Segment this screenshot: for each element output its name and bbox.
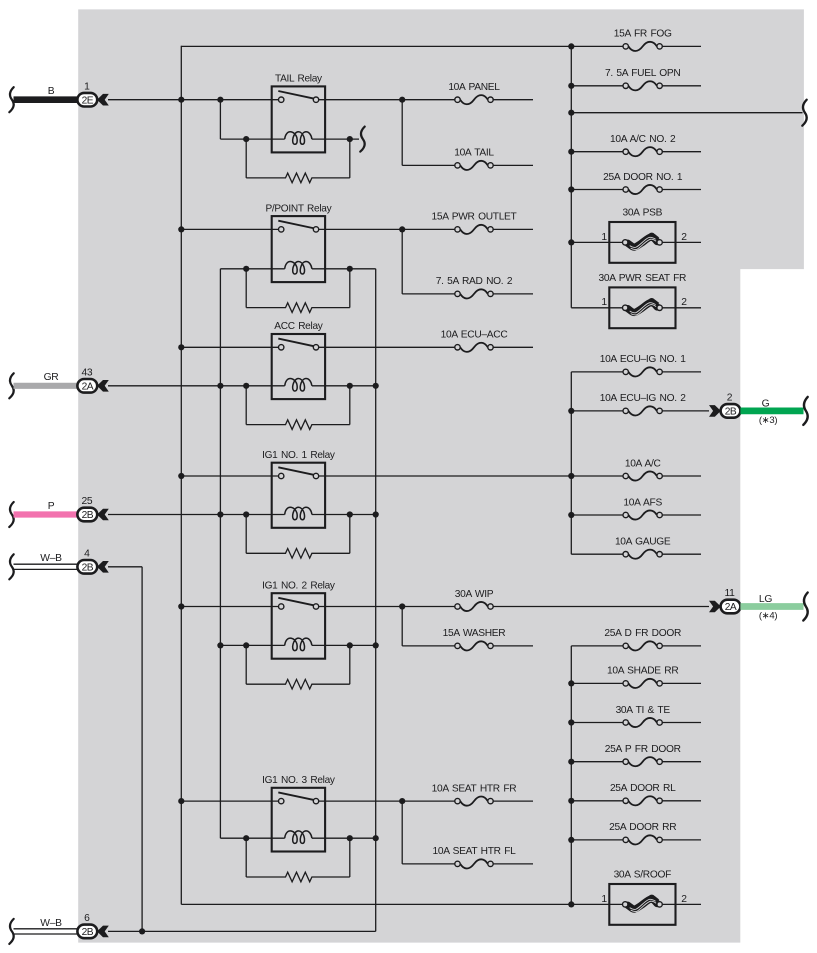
wire: IG1 NO. 3 relay switch line to 10A SEAT HTR FR: [181, 800, 533, 802]
relay IG1 NO. 3 Relay: box: [272, 788, 325, 852]
relay TAIL Relay: parallel resistor: [246, 139, 350, 183]
svg-text:7. 5A FUEL OPN: 7. 5A FUEL OPN: [605, 68, 680, 79]
wire: 30A TI & TE line: [571, 722, 701, 724]
wire: 10A GAUGE line: [571, 553, 701, 555]
wire: 25A DOOR RR line: [571, 839, 701, 841]
svg-text:1: 1: [601, 232, 607, 243]
relay IG1 NO. 1 Relay: resistor junction dots: [243, 511, 353, 517]
relay IG1 NO. 3 Relay: resistor junction dots: [243, 835, 353, 841]
svg-text:1: 1: [84, 81, 90, 92]
svg-text:P: P: [48, 501, 55, 512]
wire: IG1 output fuse bus: [570, 372, 572, 554]
wire: 10A ECU-IG NO. 2 line to G out: [571, 410, 709, 412]
svg-text:25A DOOR RR: 25A DOOR RR: [609, 822, 676, 833]
svg-text:10A A/C NO. 2: 10A A/C NO. 2: [610, 134, 676, 145]
relay IG1 NO. 2 Relay: parallel resistor: [246, 645, 350, 689]
fuse 30A WIP: [455, 589, 494, 611]
junction dots: coil feed taps: [217, 97, 223, 649]
svg-text:10A SEAT HTR FR: 10A SEAT HTR FR: [432, 783, 517, 794]
wire: 25A DOOR RL line: [571, 800, 701, 802]
wire: relay coil feed vertical (lower section): [219, 269, 221, 838]
svg-text:1: 1: [601, 297, 607, 308]
relay TAIL Relay: box: [272, 86, 325, 152]
svg-text:IG1 NO. 2 Relay: IG1 NO. 2 Relay: [262, 580, 336, 591]
svg-text:30A PWR SEAT FR: 30A PWR SEAT FR: [599, 273, 687, 284]
fuse 15A FR FOG: [614, 29, 672, 51]
fuse 30A TI & TE: [616, 705, 671, 727]
svg-text:10A PANEL: 10A PANEL: [448, 82, 500, 93]
svg-text:2: 2: [727, 393, 733, 404]
junction dots: door fuse bus: [568, 680, 574, 907]
wire: coil ground vertical to W-B: [375, 269, 377, 932]
arrow into connector 2A (LG): [709, 601, 721, 613]
svg-text:15A FR FOG: 15A FR FOG: [614, 29, 672, 40]
fusible link 30A PSB: [601, 207, 687, 262]
svg-text:W–B: W–B: [40, 918, 62, 929]
relay ACC Relay: parallel resistor: [246, 386, 350, 430]
svg-text:30A WIP: 30A WIP: [455, 589, 494, 600]
wire: IG1 NO. 2 relay switch line to 30A WIP and LG out: [181, 606, 709, 608]
connector oval 2A: [721, 600, 741, 614]
wire: branch 10A SEAT HTR FR to FL: [402, 801, 533, 864]
GR wire: [14, 372, 78, 386]
svg-text:2B: 2B: [725, 407, 737, 418]
fuse 25A D FR DOOR: [604, 628, 681, 650]
svg-text:(∗4): (∗4): [759, 611, 778, 622]
relay P/POINT Relay: box: [272, 216, 325, 282]
wire: IG1 NO. 1 relay switch line to 10A A/C: [181, 475, 701, 477]
fuse 15A WASHER: [443, 628, 506, 650]
svg-text:10A SEAT HTR FL: 10A SEAT HTR FL: [432, 846, 516, 857]
wire: unfused battery feed line: [571, 112, 802, 114]
svg-text:10A ECU–ACC: 10A ECU–ACC: [441, 330, 508, 341]
G wire: [740, 398, 803, 426]
relay P/POINT Relay: label: [265, 203, 332, 214]
connector pin number 1: [84, 81, 90, 92]
svg-text:15A WASHER: 15A WASHER: [443, 628, 506, 639]
connector oval 2B: [721, 404, 741, 418]
svg-text:10A TAIL: 10A TAIL: [454, 148, 494, 159]
wire: 7.5A FUEL OPN line: [571, 85, 701, 87]
wire break symbol (W–B lead-in): [9, 554, 13, 579]
relay ACC Relay: label: [274, 321, 323, 332]
fuse 25A DOOR NO. 1: [603, 172, 683, 194]
svg-text:10A GAUGE: 10A GAUGE: [615, 537, 671, 548]
svg-text:2: 2: [681, 232, 687, 243]
wire break symbol (GR lead-in): [9, 373, 13, 398]
wire: 25A DOOR NO. 1 line: [571, 189, 701, 191]
connector oval 2A: [77, 379, 97, 393]
svg-text:15A PWR OUTLET: 15A PWR OUTLET: [432, 212, 517, 223]
relay TAIL Relay: label: [275, 74, 323, 85]
wire: 15A FR FOG line: [571, 45, 701, 47]
svg-text:2A: 2A: [725, 602, 737, 613]
svg-text:30A S/ROOF: 30A S/ROOF: [614, 869, 672, 880]
arrow into connector 2E: [97, 94, 109, 106]
wire: top feed line from left bus to fuse bus: [181, 45, 571, 47]
fusible link 30A S/ROOF: [601, 869, 687, 924]
LG wire: [740, 594, 803, 622]
junction dot: W-B ground join: [139, 928, 145, 934]
wire: 10A ECU-IG NO. 1 line: [571, 371, 701, 373]
wire: IG1 NO. 2 relay coil line: [220, 644, 375, 646]
fuse 25A DOOR RR: [609, 822, 676, 844]
wire: TAIL relay coil line: [220, 138, 359, 140]
connector pin number 6: [84, 913, 90, 924]
svg-text:30A PSB: 30A PSB: [622, 207, 662, 218]
relay IG1 NO. 2 Relay: resistor junction dots: [243, 642, 353, 648]
svg-text:ACC Relay: ACC Relay: [274, 321, 323, 332]
relay IG1 NO. 2 Relay: label: [262, 580, 336, 591]
wire: ACC relay switch line to 10A ECU-ACC: [181, 346, 533, 348]
wire: P/POINT relay switch line to 15A PWR OUTLET: [181, 228, 533, 230]
fuse 10A A/C NO. 2: [610, 134, 676, 156]
wire: left vertical battery bus: [180, 46, 182, 905]
relay TAIL Relay: switch contacts and blade: [278, 91, 318, 102]
connector pin number 11: [724, 588, 735, 599]
wire break symbol (B lead-in): [9, 87, 13, 112]
svg-text:10A ECU–IG NO. 2: 10A ECU–IG NO. 2: [600, 393, 687, 404]
junction dots: middle fuse branches: [399, 97, 405, 805]
W–B wire: [14, 918, 78, 934]
svg-text:2B: 2B: [82, 562, 94, 573]
fuse 10A PANEL: [448, 82, 500, 104]
svg-text:TAIL Relay: TAIL Relay: [275, 74, 323, 85]
wire break symbol (TAIL coil control): [360, 127, 364, 152]
wire: 30A PSB line: [571, 241, 701, 243]
svg-text:43: 43: [81, 367, 92, 378]
relay IG1 NO. 2 Relay: coil: [285, 638, 312, 651]
arrow into connector 2B: [97, 509, 109, 521]
arrow into connector 2B: [97, 926, 109, 938]
connector oval 2E: [77, 93, 97, 107]
relay IG1 NO. 1 Relay: switch contacts and blade: [278, 467, 318, 478]
svg-text:25A DOOR NO. 1: 25A DOOR NO. 1: [603, 172, 683, 183]
relay TAIL Relay: coil: [285, 132, 312, 145]
wire: branch 15A PWR OUTLET to 7.5A RAD NO. 2: [402, 229, 533, 294]
fuse 10A A/C: [623, 458, 662, 480]
fuse 25A P FR DOOR: [605, 744, 681, 766]
connector oval 2B: [77, 508, 97, 522]
connector pin number 25: [81, 496, 92, 507]
svg-text:2B: 2B: [82, 510, 94, 521]
fuse 10A GAUGE: [615, 537, 671, 559]
wire break symbol (battery feed out): [802, 100, 806, 126]
wire: bottom feed line to 30A S/ROOF: [181, 903, 701, 905]
svg-text:2E: 2E: [82, 95, 94, 106]
relay ACC Relay: resistor junction dots: [243, 383, 353, 389]
wire: right battery fuse bus: [570, 46, 572, 307]
wire: 25A P FR DOOR line: [571, 761, 701, 763]
svg-text:(∗3): (∗3): [759, 415, 778, 426]
wire: P line / IG1 NO. 1 relay coil line: [108, 514, 376, 516]
junction dots: IG1 fuse bus: [568, 408, 574, 518]
relay ACC Relay: switch contacts and blade: [278, 339, 318, 350]
fuse 15A PWR OUTLET: [432, 212, 517, 234]
junction dots: coil ground taps: [373, 383, 379, 842]
wire: W-B ground line (connector 6): [108, 930, 376, 932]
fuse 7. 5A FUEL OPN: [605, 68, 680, 90]
fusible link 30A PWR SEAT FR: [599, 273, 688, 328]
relay IG1 NO. 3 Relay: parallel resistor: [246, 838, 350, 882]
relay IG1 NO. 3 Relay: coil: [285, 831, 312, 844]
wire: W-B ground link from connector 4: [108, 567, 142, 932]
fuse 10A ECU–ACC: [441, 330, 508, 352]
wire break symbol (W–B lead-in): [9, 919, 13, 944]
svg-text:2: 2: [681, 894, 687, 905]
fuse 7. 5A RAD NO. 2: [436, 276, 513, 298]
relay P/POINT Relay: resistor junction dots: [243, 266, 353, 272]
relay IG1 NO. 1 Relay: parallel resistor: [246, 515, 350, 559]
W–B wire: [14, 553, 78, 569]
wire: branch 30A WIP to 15A WASHER: [402, 607, 533, 646]
svg-text:IG1 NO. 3 Relay: IG1 NO. 3 Relay: [262, 775, 336, 786]
svg-text:7. 5A RAD NO. 2: 7. 5A RAD NO. 2: [436, 276, 513, 287]
fuse 10A SHADE RR: [607, 666, 678, 688]
wire: coil feed drop TAIL: [219, 100, 221, 139]
svg-text:6: 6: [84, 913, 90, 924]
relay IG1 NO. 2 Relay: box: [272, 593, 325, 659]
wire: 10A A/C NO. 2 line: [571, 151, 701, 153]
relay IG1 NO. 1 Relay: coil: [285, 507, 312, 520]
wire: 30A PWR SEAT FR line: [571, 307, 701, 309]
fuse 25A DOOR RL: [610, 783, 676, 805]
fuse 10A SEAT HTR FR: [432, 783, 517, 805]
wire: GR line / ACC relay coil line: [108, 385, 376, 387]
connector pin number 4: [84, 548, 90, 559]
junction dots: left battery bus: [178, 97, 184, 805]
P wire: [14, 501, 78, 515]
relay IG1 NO. 1 Relay: box: [272, 463, 325, 528]
relay P/POINT Relay: switch contacts and blade: [278, 221, 318, 232]
svg-text:B: B: [48, 86, 55, 97]
relay IG1 NO. 3 Relay: label: [262, 775, 336, 786]
wire break symbol (P lead-in): [9, 502, 13, 527]
relay ACC Relay: coil: [285, 379, 312, 392]
relay IG1 NO. 2 Relay: switch contacts and blade: [278, 598, 318, 609]
relay ACC Relay: box: [272, 334, 325, 399]
fuse 10A ECU–IG NO. 1: [600, 354, 687, 376]
svg-text:4: 4: [84, 548, 90, 559]
relay P/POINT Relay: coil: [285, 262, 312, 275]
fuse 10A ECU–IG NO. 2: [600, 393, 687, 415]
svg-text:GR: GR: [44, 372, 59, 383]
svg-text:G: G: [762, 398, 770, 409]
svg-text:LG: LG: [759, 594, 772, 605]
fuse 10A SEAT HTR FL: [432, 846, 516, 868]
svg-text:2B: 2B: [82, 927, 94, 938]
wire: IG1 NO. 3 relay coil line: [220, 837, 375, 839]
svg-text:25A P FR DOOR: 25A P FR DOOR: [605, 744, 681, 755]
svg-text:30A TI & TE: 30A TI & TE: [616, 705, 671, 716]
B wire: [14, 86, 78, 100]
wire: 10A SHADE RR line: [571, 682, 701, 684]
fuse 10A AFS: [623, 497, 662, 519]
svg-text:10A A/C: 10A A/C: [625, 458, 661, 469]
svg-text:P/POINT Relay: P/POINT Relay: [265, 203, 332, 214]
wire: B battery line (node B to TAIL relay and 10A PANEL): [108, 99, 533, 101]
connector oval 2B: [77, 925, 97, 939]
svg-text:25A DOOR RL: 25A DOOR RL: [610, 783, 676, 794]
svg-text:2A: 2A: [82, 381, 94, 392]
arrow into connector 2B (G): [709, 405, 721, 417]
svg-text:IG1 NO. 1 Relay: IG1 NO. 1 Relay: [262, 450, 336, 461]
svg-text:25: 25: [81, 496, 92, 507]
wire break symbol (LG lead-out): [803, 593, 807, 621]
connector oval 2B: [77, 560, 97, 574]
connector pin number 2: [727, 393, 733, 404]
wire: accessory door fuse bus: [570, 646, 572, 905]
svg-text:10A SHADE RR: 10A SHADE RR: [607, 666, 678, 677]
fuse 10A TAIL: [454, 148, 494, 170]
relay IG1 NO. 1 Relay: label: [262, 450, 336, 461]
wire: 25A D FR DOOR line: [571, 645, 701, 647]
svg-text:11: 11: [724, 588, 735, 599]
svg-text:10A AFS: 10A AFS: [623, 497, 662, 508]
svg-text:10A ECU–IG NO. 1: 10A ECU–IG NO. 1: [600, 354, 687, 365]
wire: P/POINT relay coil line: [220, 268, 375, 270]
wire break symbol (G lead-out): [803, 397, 807, 425]
relay P/POINT Relay: parallel resistor: [246, 269, 350, 313]
svg-text:1: 1: [601, 894, 607, 905]
svg-text:2: 2: [681, 297, 687, 308]
connector pin number 43: [81, 367, 92, 378]
arrow into connector 2A: [97, 380, 109, 392]
wire: 10A AFS line: [571, 514, 701, 516]
svg-text:25A D FR DOOR: 25A D FR DOOR: [604, 628, 681, 639]
wire: branch 10A PANEL to 10A TAIL: [402, 100, 533, 166]
arrow into connector 2B: [97, 561, 109, 573]
svg-text:W–B: W–B: [40, 553, 62, 564]
relay IG1 NO. 3 Relay: switch contacts and blade: [278, 792, 318, 803]
junction dots: right battery fuse bus: [568, 43, 574, 245]
relay TAIL Relay: resistor junction dots: [243, 136, 353, 142]
